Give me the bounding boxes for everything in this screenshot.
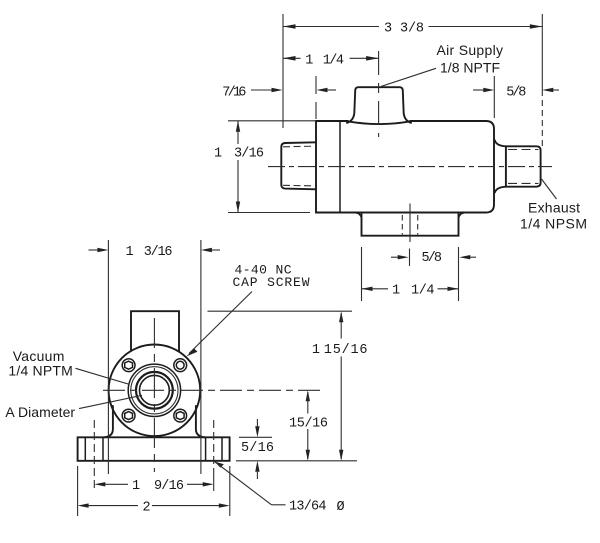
svg-text:1: 1 (214, 147, 222, 162)
svg-text:13/64: 13/64 (289, 500, 327, 515)
svg-text:5/16: 5/16 (241, 441, 274, 456)
svg-text:15/16: 15/16 (324, 343, 368, 358)
svg-text:CAP SCREW: CAP SCREW (233, 275, 310, 290)
svg-text:1/4: 1/4 (323, 53, 344, 68)
svg-text:A Diameter: A Diameter (5, 404, 75, 420)
svg-text:1/4 NPSM: 1/4 NPSM (520, 216, 587, 232)
svg-text:3/16: 3/16 (234, 147, 264, 162)
svg-text:5/8: 5/8 (422, 251, 443, 266)
svg-text:1: 1 (126, 245, 134, 260)
svg-text:2: 2 (143, 500, 151, 515)
svg-text:1: 1 (305, 53, 313, 68)
svg-text:5/8: 5/8 (506, 85, 526, 100)
svg-text:1/8 NPTF: 1/8 NPTF (440, 59, 500, 75)
svg-text:3: 3 (384, 21, 392, 36)
svg-text:1/4 NPTM: 1/4 NPTM (8, 363, 72, 379)
svg-text:Ø: Ø (337, 500, 345, 515)
svg-text:1: 1 (392, 284, 400, 299)
svg-text:7/16: 7/16 (222, 85, 246, 100)
svg-text:15/16: 15/16 (289, 416, 328, 431)
svg-text:3/8: 3/8 (400, 21, 424, 36)
svg-text:3/16: 3/16 (144, 245, 173, 260)
svg-text:1: 1 (132, 479, 140, 494)
svg-text:9/16: 9/16 (154, 479, 184, 494)
svg-text:Air Supply: Air Supply (437, 42, 504, 58)
svg-text:Exhaust: Exhaust (528, 200, 580, 216)
svg-text:1: 1 (312, 343, 320, 358)
svg-text:1/4: 1/4 (411, 284, 435, 299)
